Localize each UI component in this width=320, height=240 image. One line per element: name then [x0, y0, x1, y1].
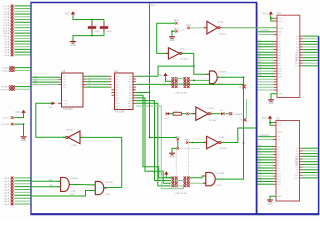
- svg-text:VCC: VCC: [157, 74, 162, 77]
- power VCC symbol IC1: [269, 11, 273, 14]
- resistor R1: [173, 111, 181, 115]
- IC IC5 counter box: [62, 70, 84, 111]
- solder pad PAD4: [175, 135, 181, 140]
- wire pads net to inverter B input: [157, 23, 175, 53]
- wire IC2 GND: [270, 196, 276, 199]
- wire R1 to pad: [181, 113, 186, 115]
- svg-text:GND: GND: [70, 44, 76, 47]
- solder pad POWERON: [229, 112, 232, 115]
- wire IC4 B0 to AND gate C input: [136, 66, 194, 76]
- svg-text:A4: A4: [259, 155, 261, 158]
- svg-text:74LS08: 74LS08: [218, 72, 226, 74]
- svg-text:A2: A2: [259, 149, 261, 152]
- svg-text:IO6-A: IO6-A: [4, 19, 10, 22]
- wire vertical drop 4: [136, 103, 171, 186]
- svg-text:A5-B: A5-B: [4, 192, 9, 195]
- junction long vertical: [243, 142, 245, 144]
- junction link AND C: [193, 80, 195, 82]
- svg-text:A14-A: A14-A: [3, 32, 10, 35]
- svg-text:74LS04: 74LS04: [66, 130, 74, 132]
- wire AND D input1 from links: [190, 176, 206, 178]
- svg-text:LINK 10 4R: LINK 10 4R: [175, 93, 187, 95]
- svg-text:A0: A0: [259, 144, 261, 147]
- svg-text:74LS08: 74LS08: [216, 173, 224, 175]
- svg-text:A4: A4: [259, 50, 261, 53]
- IC5 pin labels: [63, 76, 82, 105]
- svg-text:D5-A: D5-A: [4, 51, 10, 54]
- svg-text:1: 1: [204, 141, 205, 143]
- svg-text:CLR: CLR: [63, 103, 68, 105]
- solder pad PAD5: [185, 139, 191, 144]
- svg-text:A7: A7: [259, 58, 261, 61]
- junction B0: [193, 65, 195, 67]
- svg-text:A8-B: A8-B: [4, 200, 9, 203]
- svg-text:A3-B: A3-B: [4, 186, 9, 189]
- svg-text:D6-A: D6-A: [4, 54, 10, 57]
- ground symbol IC2: [267, 199, 273, 201]
- wire link lower rows: [174, 181, 184, 186]
- svg-text:A11: A11: [259, 69, 262, 72]
- svg-text:A9-B: A9-B: [4, 203, 9, 206]
- wire vertical drop 1: [136, 95, 171, 178]
- svg-text:LINK 10 4R: LINK 10 4R: [175, 193, 187, 195]
- svg-text:VCC: VCC: [165, 118, 170, 120]
- svg-text:D3-A: D3-A: [4, 46, 10, 49]
- AND gate IC2B: [95, 182, 104, 195]
- wire pad4 branch down: [177, 141, 179, 148]
- svg-text:74LS04: 74LS04: [218, 33, 226, 35]
- svg-text:PAD2: PAD2: [174, 27, 180, 30]
- wire IC5 CLK loop: [36, 103, 66, 137]
- svg-text:VCC: VCC: [65, 13, 70, 16]
- svg-text:VCC: VCC: [15, 111, 20, 114]
- svg-text:Q3: Q3: [88, 83, 91, 85]
- power VCC symbol top-left: [71, 11, 75, 14]
- svg-text:74LS04: 74LS04: [180, 59, 188, 61]
- wire link rows upper: [174, 79, 184, 84]
- svg-text:A9: A9: [259, 63, 261, 66]
- connector SV1 pins 1-19 with wires to bus: [3, 5, 30, 57]
- wires bus to IC5 inputs: [32, 75, 62, 85]
- svg-text:A1-B: A1-B: [4, 180, 9, 183]
- power VCC symbol left: [21, 110, 25, 113]
- svg-text:A1: A1: [259, 42, 261, 45]
- wire bus to gate A in1: [32, 179, 61, 182]
- AND gate IC2A: [61, 177, 70, 191]
- wire VCC to IC1 pins: [270, 16, 277, 21]
- power VCC symbol IC2: [268, 115, 272, 118]
- wire AND C output down: [217, 77, 243, 179]
- svg-text:27C256: 27C256: [295, 52, 299, 62]
- svg-text:A8: A8: [259, 61, 261, 64]
- wire net T vertical: [246, 99, 248, 119]
- solder pad X2: [174, 27, 180, 32]
- wire IC4 B3 long right: [136, 83, 244, 85]
- IC4 extra left pins: [112, 90, 115, 95]
- svg-text:POWERON: POWERON: [259, 30, 270, 32]
- svg-text:74LS245: 74LS245: [115, 110, 125, 113]
- jumper link block upper right: [184, 77, 190, 88]
- svg-text:GND: GND: [278, 94, 283, 96]
- svg-text:A0: A0: [259, 39, 261, 42]
- svg-text:PAD5: PAD5: [185, 139, 191, 142]
- capacitor C2: [100, 20, 112, 36]
- inverter gate IC3C: [168, 48, 179, 59]
- solder pad ROMSEL: [239, 85, 246, 89]
- wire net A15 vertical: [149, 3, 151, 137]
- wire pad3 to inverter A: [190, 27, 207, 29]
- dashed riser2: [187, 144, 189, 176]
- junction net B3 end: [243, 84, 245, 86]
- junction AND C out: [243, 76, 245, 78]
- diode D1 left arrow: [166, 112, 169, 115]
- svg-text:PGM: PGM: [278, 28, 283, 30]
- svg-text:IC3E: IC3E: [219, 137, 224, 139]
- AND gate IC2D: [206, 172, 215, 185]
- svg-text:100n: 100n: [107, 31, 113, 33]
- svg-text:IO1-A: IO1-A: [4, 5, 10, 8]
- wire link col to AND C lower input: [190, 79, 210, 81]
- svg-text:A9: A9: [259, 168, 261, 171]
- svg-text:1: 1: [193, 112, 194, 114]
- wire IC4 B6 to A15 vertical: [136, 92, 150, 94]
- IC5 CLK input wire with arrow: [44, 102, 62, 109]
- wire inv F out to diode: [211, 113, 221, 115]
- svg-text:IC4: IC4: [115, 70, 119, 73]
- inverter gate IC3E: [207, 136, 219, 149]
- jumper link block lower left: [172, 177, 178, 188]
- wire diode to R1: [169, 113, 173, 115]
- svg-text:Q1: Q1: [88, 78, 91, 80]
- capacitor C1: [88, 20, 100, 36]
- AND gate IC2C: [210, 71, 218, 84]
- svg-text:A12: A12: [259, 176, 262, 179]
- jumper link block lower right: [184, 177, 190, 188]
- wire IC1 GND: [271, 94, 277, 100]
- svg-text:IO7-A: IO7-A: [4, 21, 10, 24]
- svg-text:A6: A6: [259, 55, 261, 58]
- inverter gate IC3B: [207, 21, 218, 34]
- svg-text:74LS04: 74LS04: [209, 120, 217, 122]
- svg-text:VPP: VPP: [278, 21, 283, 23]
- wire pad to inverter F: [189, 113, 196, 115]
- solder pad X3: [186, 24, 192, 29]
- jumper link block upper left: [172, 77, 178, 88]
- svg-text:PAD1: PAD1: [174, 19, 180, 22]
- svg-text:POWERON: POWERON: [259, 135, 270, 137]
- svg-text:PGM: PGM: [277, 132, 282, 134]
- svg-text:100n: 100n: [95, 31, 101, 33]
- svg-text:27C256: 27C256: [294, 156, 298, 166]
- svg-text:74LS08: 74LS08: [70, 178, 78, 180]
- svg-text:IC2: IC2: [276, 118, 280, 121]
- wires IC1 data pins to right bus: [300, 36, 318, 66]
- svg-text:74LS393: 74LS393: [63, 108, 73, 111]
- svg-text:VCC: VCC: [262, 117, 267, 120]
- svg-text:A12-A: A12-A: [3, 27, 10, 30]
- IC4 pin labels: [116, 75, 132, 110]
- svg-text:A1: A1: [259, 147, 261, 150]
- svg-text:1: 1: [166, 52, 167, 54]
- svg-text:Q4: Q4: [88, 86, 91, 88]
- wire pad to gnd: [172, 148, 176, 152]
- ground symbol IC1: [268, 99, 274, 101]
- junction cap rail bottom: [91, 35, 93, 37]
- wire VCC to cap rail: [73, 16, 104, 20]
- svg-text:A2: A2: [259, 44, 261, 47]
- wires bus to IC2 address pins: [258, 135, 277, 185]
- wire bus to gate A in2: [32, 185, 61, 187]
- svg-text:PAD3: PAD3: [186, 24, 192, 27]
- svg-text:A5: A5: [259, 158, 261, 161]
- svg-text:GND: GND: [21, 139, 27, 142]
- ground symbol pads: [169, 36, 175, 38]
- svg-text:A7: A7: [259, 163, 261, 166]
- svg-text:IC3D: IC3D: [209, 108, 214, 110]
- solder pad chain: [186, 113, 188, 115]
- wire inverter D input net: [80, 137, 122, 187]
- svg-text:GND: GND: [267, 202, 273, 205]
- svg-text:15 ADC: 15 ADC: [2, 70, 10, 73]
- inverter gate IC3A: [68, 131, 80, 144]
- wires bus to IC1 address pins: [258, 30, 278, 90]
- inverter gate IC3D: [196, 107, 209, 120]
- IC4 right pin stubs: [133, 76, 136, 103]
- svg-text:A12: A12: [259, 71, 262, 74]
- svg-text:VCC: VCC: [263, 13, 268, 16]
- solder pad X1: [174, 19, 180, 24]
- IC IC1 EPROM 27C256 box: [277, 12, 300, 97]
- svg-text:IC2B: IC2B: [105, 194, 110, 196]
- ground symbol top-left: [70, 41, 76, 43]
- wire vertical drop 5: [136, 106, 184, 189]
- svg-text:1: 1: [204, 26, 205, 28]
- svg-text:D1-A: D1-A: [4, 40, 10, 43]
- bus top horizontal: [30, 2, 257, 4]
- wire AND D out: [215, 178, 221, 180]
- svg-text:0V GND: 0V GND: [1, 124, 10, 126]
- wire VCC to link upper: [166, 77, 172, 81]
- wire A15 branch to pad4 row: [150, 137, 177, 140]
- solder pad T2: [240, 118, 247, 122]
- svg-text:D0-A: D0-A: [4, 38, 10, 41]
- wire gate A out to gate B: [70, 183, 95, 186]
- svg-text:74LS08: 74LS08: [105, 182, 113, 184]
- ground symbol pads2: [169, 152, 175, 154]
- wire cap bottom rail to GND: [73, 36, 104, 41]
- svg-text:POWER: POWER: [1, 87, 10, 89]
- dashed link pad2-pad3: [178, 29, 187, 32]
- connector pin GND with wire: [1, 123, 24, 137]
- svg-text:IO4-A: IO4-A: [4, 13, 10, 16]
- svg-text:D4-A: D4-A: [4, 49, 10, 52]
- wire gate B out up: [104, 187, 122, 189]
- svg-text:IO5-A: IO5-A: [4, 16, 10, 19]
- wire diode to pad: [226, 113, 229, 115]
- svg-text:Q0: Q0: [88, 75, 91, 77]
- diode D2 right: [220, 110, 224, 115]
- svg-text:74LS04: 74LS04: [219, 148, 227, 150]
- svg-text:IC5: IC5: [62, 70, 66, 73]
- svg-text:A8: A8: [259, 166, 261, 169]
- svg-text:IC2D: IC2D: [216, 185, 221, 187]
- svg-text:POWERON: POWERON: [233, 114, 245, 116]
- connector SV2 bottom pins with wires: [4, 177, 30, 207]
- svg-text:IC2A: IC2A: [70, 190, 75, 193]
- wire pad5 to inverter E: [189, 142, 207, 144]
- svg-text:POWRON: POWRON: [0, 89, 10, 91]
- wire inverter E out to bus: [221, 128, 256, 143]
- IC IC4 buffer box: [115, 70, 134, 113]
- svg-text:+5 VDC: +5 VDC: [2, 118, 10, 120]
- svg-text:GND: GND: [277, 196, 282, 198]
- svg-text:IO3-A: IO3-A: [4, 10, 10, 13]
- svg-text:A10: A10: [259, 171, 262, 174]
- svg-text:A0-B: A0-B: [4, 177, 9, 180]
- connector pin +5V with wire to VCC symbol: [2, 114, 24, 119]
- wires IC2 data pins to right bus: [300, 148, 319, 178]
- bus bottom horizontal: [30, 213, 319, 215]
- svg-text:A2-B: A2-B: [4, 183, 9, 186]
- svg-text:A11: A11: [259, 174, 262, 177]
- wire inverter A out to EPROM PGM: [221, 27, 277, 29]
- svg-text:VCC: VCC: [277, 123, 282, 125]
- dashed net right: [180, 147, 201, 149]
- wires IC5 to IC4: [83, 75, 112, 88]
- junction B3: [212, 84, 214, 86]
- wire pad2 to gnd: [171, 30, 175, 36]
- wire VCC to IC2 pins: [269, 120, 276, 125]
- svg-text:IC3C: IC3C: [180, 49, 185, 51]
- svg-text:A3: A3: [259, 152, 261, 155]
- bus left vertical: [30, 3, 32, 215]
- bus inner right vertical: [256, 3, 258, 215]
- svg-text:GND: GND: [169, 39, 175, 42]
- wire vertical drop 3: [136, 101, 171, 181]
- connector pins ADC: [2, 66, 31, 72]
- svg-text:10 ADC: 10 ADC: [2, 67, 10, 70]
- svg-text:A10: A10: [259, 66, 262, 69]
- wire vertical drop 2: [136, 98, 171, 183]
- solder pad below PAD4: [177, 147, 179, 149]
- bus right outer vertical: [318, 36, 320, 215]
- connector pins RW: [0, 85, 31, 91]
- svg-text:VCC: VCC: [278, 18, 283, 20]
- svg-text:GND: GND: [169, 156, 175, 159]
- svg-text:A13: A13: [259, 74, 262, 77]
- power VCC symbol links upper: [163, 73, 167, 76]
- svg-text:A7-B: A7-B: [4, 197, 9, 200]
- svg-text:A5: A5: [259, 53, 261, 56]
- wire bus to gate B in2: [32, 191, 95, 197]
- ground symbol left: [21, 136, 27, 138]
- svg-text:A6: A6: [259, 160, 261, 163]
- wire inverter B out: [182, 53, 210, 74]
- svg-text:IC2C: IC2C: [218, 83, 223, 85]
- svg-text:A15-A: A15-A: [3, 35, 10, 38]
- wire VCC to link lower: [166, 176, 171, 178]
- svg-text:Q2: Q2: [88, 80, 91, 82]
- svg-text:GND: GND: [268, 102, 274, 105]
- junction cap rail top: [91, 19, 93, 21]
- svg-text:D2-A: D2-A: [4, 43, 10, 46]
- svg-text:A4-B: A4-B: [4, 189, 9, 192]
- svg-text:PAD4: PAD4: [175, 135, 181, 138]
- svg-text:>CLK: >CLK: [63, 100, 69, 103]
- power VCC symbol links lower: [164, 171, 168, 174]
- svg-text:VPP: VPP: [277, 125, 282, 127]
- svg-text:A3: A3: [259, 47, 261, 50]
- svg-text:IC3A: IC3A: [72, 144, 77, 147]
- svg-text:IC3B: IC3B: [218, 22, 223, 24]
- dashed risers to links: [175, 150, 177, 177]
- svg-text:A13-A: A13-A: [3, 29, 10, 32]
- IC IC2 EPROM 27C256 box: [276, 118, 300, 202]
- svg-text:IO8-A: IO8-A: [4, 24, 10, 27]
- svg-text:A14: A14: [259, 182, 262, 185]
- svg-text:A6-B: A6-B: [4, 194, 9, 197]
- svg-text:A13: A13: [259, 179, 262, 182]
- junction B6: [149, 92, 151, 94]
- svg-text:IC1: IC1: [277, 12, 281, 15]
- svg-text:VCC: VCC: [158, 173, 163, 176]
- wire AND D input2: [190, 182, 206, 184]
- junction A15 pad4: [149, 137, 151, 139]
- svg-text:IO2-A: IO2-A: [4, 8, 10, 11]
